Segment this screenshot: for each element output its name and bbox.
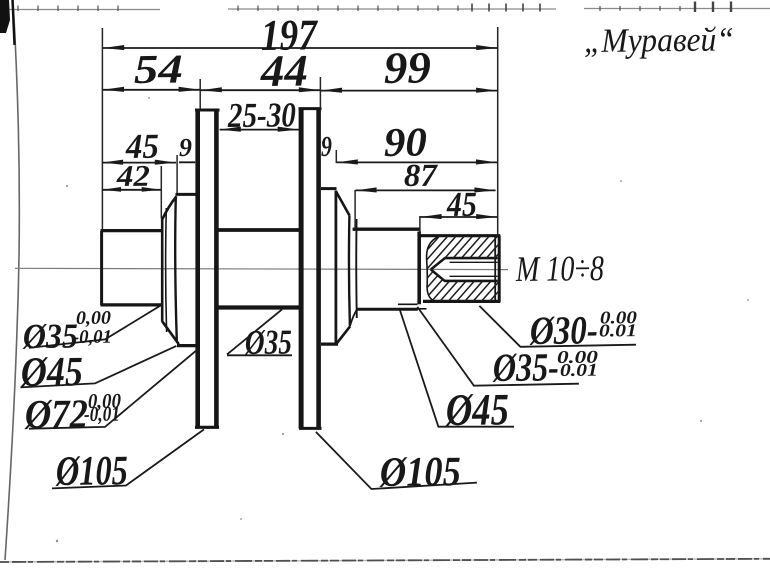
svg-text:44: 44: [260, 46, 309, 97]
svg-text:9: 9: [179, 133, 192, 162]
svg-text:0.01: 0.01: [599, 320, 637, 340]
middle journal O35: [219, 230, 301, 308]
dimension line 54: [103, 89, 200, 91]
extension lines: [102, 27, 497, 235]
svg-text:Ø35: Ø35: [244, 323, 292, 362]
bottom border line: [0, 559, 770, 562]
svg-text:Ø45: Ø45: [445, 384, 509, 435]
top border line: [0, 9, 770, 10]
dimension line 42: [102, 189, 161, 191]
M10 threaded hole: [431, 258, 498, 281]
leader O35 left: [29, 306, 160, 348]
svg-text:9: 9: [321, 131, 332, 163]
wavy local-section cut line: [427, 236, 440, 301]
section hatching: [372, 234, 558, 303]
top border tick marks: [18, 2, 731, 13]
dimension line 99: [321, 90, 498, 92]
svg-text:87: 87: [404, 157, 439, 193]
leader O35 middle: [227, 309, 292, 355]
left border dark top segment: [13, 0, 15, 45]
left O72 stub: [176, 194, 201, 345]
right O72 stub: [321, 189, 338, 345]
svg-text:М 10÷8: М 10÷8: [515, 248, 604, 289]
svg-text:Ø105: Ø105: [55, 448, 128, 495]
leader O45 right: [400, 310, 514, 426]
leader O45 left: [21, 346, 177, 388]
right disk O105: [299, 109, 322, 430]
left cone flange O45-O72: [162, 196, 179, 344]
dimension line 9 left: [179, 161, 195, 163]
left disk O105: [195, 110, 220, 428]
svg-text:99: 99: [384, 43, 432, 93]
leader O35 right: [417, 307, 579, 386]
right cone flange O72-O45: [336, 191, 357, 344]
dimension line 44: [201, 89, 320, 91]
svg-text:25-30: 25-30: [227, 95, 296, 135]
svg-text:42: 42: [116, 160, 150, 193]
svg-text:Ø72: Ø72: [24, 390, 88, 437]
dimension line 90: [337, 161, 498, 163]
svg-text:54: 54: [134, 45, 183, 92]
dimension line 197: [103, 47, 497, 49]
threaded end block O35 outline: [418, 236, 500, 303]
top-left corner blob: [0, 0, 10, 33]
svg-text:0.01: 0.01: [560, 360, 598, 380]
svg-text:-0,01: -0,01: [73, 327, 112, 348]
leader O30: [479, 306, 636, 347]
svg-text:Ø105: Ø105: [379, 449, 461, 496]
dimension line 45 left: [102, 162, 176, 164]
svg-text:45: 45: [446, 185, 477, 224]
centerline of axle: [15, 268, 508, 269]
leader O72: [29, 348, 199, 429]
svg-text:Ø45: Ø45: [20, 349, 83, 396]
left border line: [5, 0, 19, 560]
svg-text:„Муравей“: „Муравей“: [584, 21, 734, 60]
svg-text:Ø30-: Ø30-: [529, 307, 598, 353]
leader O105 right: [316, 432, 477, 489]
leader O105 left: [52, 429, 204, 488]
left journal cylinder O35: [101, 231, 163, 306]
scan speckles: [56, 97, 749, 542]
dimension line 45 right: [420, 216, 497, 218]
dimension line 25-30: [220, 129, 299, 131]
dimension line 87: [355, 189, 495, 191]
svg-text:-0,01: -0,01: [84, 402, 120, 426]
right journal O45: [353, 229, 427, 309]
end face of O45 journal: [417, 232, 421, 305]
